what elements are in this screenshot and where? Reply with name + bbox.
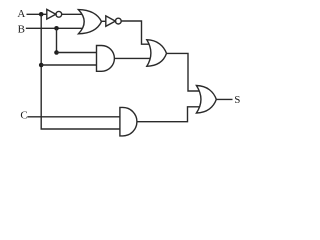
wire AND2 output to OR3 bottom input (right, up, right) [137,107,200,122]
svg-text:S: S [234,94,240,106]
node A junction dot [39,12,44,17]
svg-text:B: B [18,24,25,36]
svg-text:C: C [20,109,27,121]
wire A input to NOT1 [27,13,47,15]
inverter NOT1 triangle [47,9,56,19]
svg-text:A: A [17,8,25,20]
wire vertical from B junction down to AND1 top corner [56,28,58,52]
wire vertical from A junction down to bottom corner [40,14,42,129]
junction dot on A vertical feeding AND1 [39,63,44,68]
wire OR2 output to OR3 top input (right, down, right) [167,53,200,91]
and-gate AND2 [120,107,137,135]
wire B input to OR1 bottom input [26,27,83,29]
wire bottom from A vertical corner to AND2 bottom input [41,128,120,130]
and-gate AND1 [97,46,115,72]
wire from corner to AND1 top input [57,52,97,54]
inverter NOT1 bubble [56,11,62,17]
wire OR1 output to NOT2 [101,20,106,22]
node B junction dot [54,26,59,31]
wire C input to AND2 top input [27,116,120,118]
junction dot at AND1 top input corner [54,50,59,55]
wire NOT1 output to OR1 top input [62,13,83,15]
wire NOT2 output to OR2 top input (right, down, right) [121,21,149,44]
or-gate OR3 [196,86,216,114]
or-gate OR2 [147,40,167,67]
wire from A vertical to AND1 bottom input [41,64,96,66]
inverter NOT2 bubble [115,18,121,24]
or-gate OR1 [78,10,101,34]
wire AND1 output to OR2 bottom input [114,57,150,59]
inverter NOT2 triangle [106,16,116,26]
wire OR3 output to S [216,98,232,100]
